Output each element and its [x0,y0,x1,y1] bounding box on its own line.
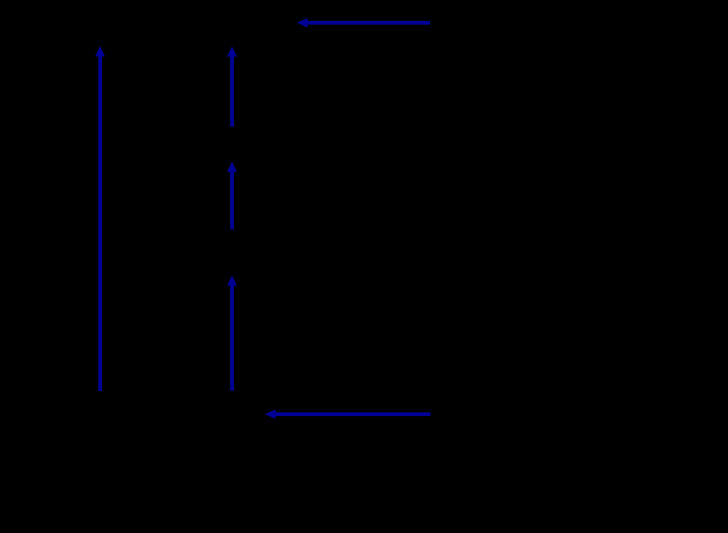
node item2: third state label [162,243,302,260]
arrow A6: bottom horizontal left-arrow (right label to bottom item) [265,409,430,419]
arrow A1: long left vertical up-arrow (direct transition, bottom item to top item) [95,46,105,391]
arrow A3: middle column middle up-arrow (item2 to item3) [227,162,237,230]
label right-bottom: annotation for bottom item [437,406,722,423]
node item1: bottom state label [162,398,302,415]
node item3: second state label [162,136,302,153]
arrow A4: middle column bottom up-arrow (item1 to item2) [227,275,237,391]
node item4: top state label (middle column) [150,18,290,35]
label right-top: annotation for top item [437,15,722,32]
arrow A5: top horizontal left-arrow (right label to top item) [297,18,430,28]
arrow A2: middle column top up-arrow (item3 to item4) [227,46,237,127]
label left: direct-transition arrow label [8,205,92,222]
